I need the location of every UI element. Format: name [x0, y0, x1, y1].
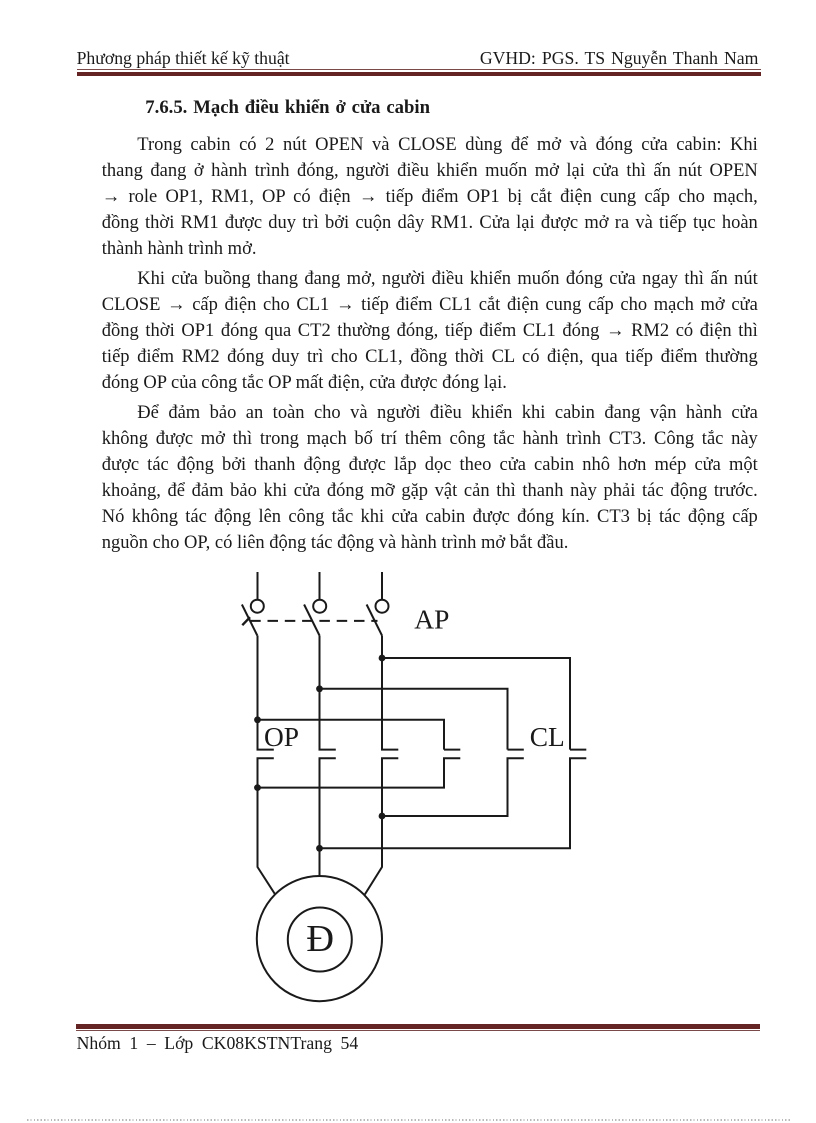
contact 6 top bar [570, 749, 586, 751]
breaker AP pole 2 terminal circle [313, 600, 326, 613]
svg-text:AP: AP [414, 605, 449, 635]
svg-text:Đ: Đ [306, 918, 334, 960]
svg-text:OP: OP [264, 722, 299, 752]
wire: phase 1 top stub [257, 572, 259, 599]
wire: phase 1 vertical + OP contact 1 top [258, 636, 274, 750]
node: junction dot phase 3 / wire y816 [379, 813, 386, 820]
wire: phase 3 vertical + contact 3 top [382, 636, 398, 750]
section heading 7.6.5 [145, 98, 430, 119]
paragraph 3 [102, 400, 758, 557]
breaker AP pole 2 blade [304, 605, 319, 636]
page bottom dotted separator [27, 1119, 790, 1120]
wire: rail 3 to contact 4 [258, 720, 445, 750]
paragraph 1 [102, 132, 758, 262]
breaker AP pole 3 terminal circle [376, 600, 389, 613]
motor Đ outer circle [257, 876, 382, 1001]
contact 5 top bar [508, 749, 524, 751]
contact 6 bottom [320, 758, 587, 848]
breaker AP pole 1 terminal circle [251, 600, 264, 613]
wire: rail 2 to CL contact 5 [320, 689, 508, 750]
contact 2 bottom bar and lead to motor [320, 758, 336, 877]
contact 3 bottom bar and lead down [365, 758, 399, 894]
header rule thick [77, 72, 761, 76]
header rule thin [77, 69, 761, 70]
header left text [77, 49, 290, 69]
motor Đ inner circle [288, 908, 352, 972]
breaker AP pole 3 blade [367, 605, 382, 636]
contact 4 top bar [444, 749, 460, 751]
contact 4 bottom [258, 758, 461, 787]
wire: phase 2 vertical + contact 2 top [320, 636, 336, 750]
breaker AP linkage dashed line [250, 620, 377, 622]
node: junction dot phase 1 / wire 3 [254, 716, 261, 723]
svg-text:CL: CL [530, 722, 565, 752]
contact 5 bottom [382, 758, 524, 816]
node: junction dot phase 2 / wire 2 [316, 685, 323, 692]
node: junction dot phase 2 / wire y848 [316, 845, 323, 852]
wire: top rail to CL contact 6 [382, 658, 570, 750]
node: junction dot phase 3 / top wire [379, 655, 386, 662]
breaker AP pole 1 latch tick [242, 617, 250, 625]
contact 1 bottom bar and lead down to motor [258, 758, 276, 894]
node: junction dot contact1 bottom [254, 784, 261, 791]
breaker AP pole 1 blade [242, 605, 257, 636]
header right text [480, 49, 759, 69]
footer rule thick [76, 1024, 760, 1029]
footer rule thin [76, 1030, 760, 1031]
footer text [77, 1034, 359, 1054]
wire: phase 2 top stub [319, 572, 321, 599]
paragraph 2 [102, 266, 758, 396]
wire: phase 3 top stub [381, 572, 383, 599]
